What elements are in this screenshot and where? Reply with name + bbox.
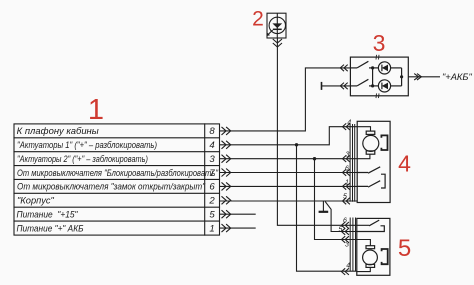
svg-text:5: 5 — [398, 235, 411, 262]
svg-text:1: 1 — [345, 180, 349, 187]
svg-text:5: 5 — [209, 210, 215, 221]
svg-text:"Актуаторы 1" ("+" – разблокир: "Актуаторы 1" ("+" – разблокировать) — [17, 140, 157, 150]
svg-text:3: 3 — [346, 152, 350, 159]
svg-text:5: 5 — [339, 227, 343, 234]
svg-text:Питание "+15": Питание "+15" — [17, 210, 79, 220]
svg-text:8: 8 — [209, 126, 215, 137]
svg-text:6: 6 — [345, 166, 349, 173]
svg-text:2: 2 — [252, 8, 264, 31]
svg-text:К плафону кабины: К плафону кабины — [17, 126, 99, 136]
svg-text:"Актуаторы 2" ("+" – заблокиро: "Актуаторы 2" ("+" – заблокировать) — [17, 154, 148, 164]
svg-text:1: 1 — [88, 94, 104, 126]
svg-text:1: 1 — [209, 223, 214, 234]
svg-text:От микровыключателя "замок отк: От микровыключателя "замок открыт/закрыт… — [17, 182, 206, 192]
svg-text:3: 3 — [373, 30, 386, 56]
svg-text:От микровыключателя "Блокирова: От микровыключателя "Блокировать/разблок… — [17, 168, 219, 178]
svg-text:"+АКБ": "+АКБ" — [442, 72, 472, 82]
svg-text:4: 4 — [209, 140, 214, 151]
svg-text:2: 2 — [208, 196, 215, 207]
svg-text:4: 4 — [346, 263, 350, 270]
svg-text:5: 5 — [343, 194, 347, 201]
svg-text:4: 4 — [398, 151, 411, 177]
svg-text:Питание "+" АКБ: Питание "+" АКБ — [17, 223, 84, 233]
svg-text:6: 6 — [343, 218, 347, 225]
svg-text:3: 3 — [209, 154, 215, 165]
svg-text:4: 4 — [347, 119, 351, 126]
svg-text:6: 6 — [209, 182, 215, 193]
svg-text:3: 3 — [345, 242, 349, 249]
svg-text:"Корпус": "Корпус" — [17, 196, 55, 206]
svg-text:7: 7 — [209, 168, 215, 179]
